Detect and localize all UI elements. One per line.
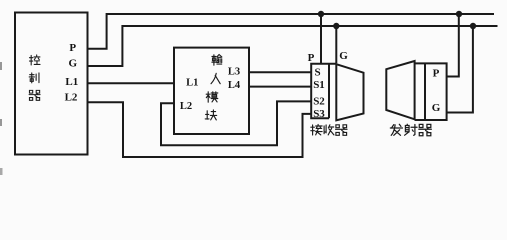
receiver caption 收 — [324, 125, 334, 135]
receiver pin box — [311, 64, 336, 118]
module label 输 — [212, 55, 222, 66]
svg-text:G: G — [432, 102, 441, 114]
wire transmitter P to top rail — [447, 14, 459, 77]
input module box — [174, 48, 249, 134]
svg-text:S2: S2 — [313, 96, 325, 108]
transmitter caption 器 — [419, 124, 432, 135]
receiver caption 接 — [311, 125, 322, 136]
svg-text:S3: S3 — [313, 108, 325, 120]
junction dot P-transmitter — [456, 11, 462, 17]
transmitter horn trapezoid — [386, 61, 414, 119]
scan speck left edge 1 — [0, 62, 2, 70]
wire L4 to receiver S1 — [249, 86, 311, 88]
svg-text:P: P — [69, 42, 76, 54]
transmitter pin box — [415, 63, 447, 120]
module label 入 — [211, 73, 220, 83]
wire module L2 to receiver S2 — [161, 101, 311, 145]
scan speck left edge 2 — [0, 119, 2, 126]
svg-text:L2: L2 — [180, 101, 192, 112]
scan speck left edge 3 — [0, 168, 3, 175]
receiver riser P to top rail — [320, 14, 322, 64]
controller label 控 — [29, 55, 40, 65]
wire transmitter G to second rail — [447, 26, 473, 113]
svg-text:L1: L1 — [65, 76, 78, 88]
receiver pin box divider — [328, 64, 330, 118]
svg-text:L1: L1 — [186, 77, 198, 88]
junction dot G-receiver — [333, 23, 339, 29]
wire L3 to receiver S — [249, 71, 311, 73]
controller label 制 — [29, 73, 39, 83]
wire L1 (controller to input module) — [88, 82, 175, 84]
junction dot P-receiver — [318, 11, 324, 17]
wire P rail (controller P to top rail) — [88, 14, 495, 49]
transmitter caption 射 — [405, 124, 417, 135]
receiver horn trapezoid — [336, 64, 363, 120]
module label 块 — [205, 110, 217, 120]
transmitter pin box divider — [424, 63, 426, 120]
svg-text:P: P — [433, 68, 440, 80]
module label 模 — [206, 92, 218, 102]
wire L2 controller to receiver S3 — [88, 102, 312, 157]
svg-text:G: G — [69, 57, 78, 69]
svg-text:S: S — [314, 66, 320, 78]
controller box — [15, 13, 88, 155]
receiver caption 器 — [336, 125, 348, 136]
svg-text:P: P — [308, 52, 315, 64]
junction dot G-transmitter — [470, 23, 476, 29]
svg-text:G: G — [339, 50, 348, 62]
svg-text:L4: L4 — [228, 80, 241, 91]
svg-text:L3: L3 — [228, 66, 240, 77]
controller label 器 — [29, 90, 40, 100]
wire G rail (controller G to second rail) — [88, 26, 498, 66]
svg-text:L2: L2 — [65, 91, 78, 103]
receiver riser G to second rail — [335, 26, 337, 63]
transmitter caption 发 — [390, 124, 402, 135]
svg-text:S1: S1 — [313, 79, 325, 91]
